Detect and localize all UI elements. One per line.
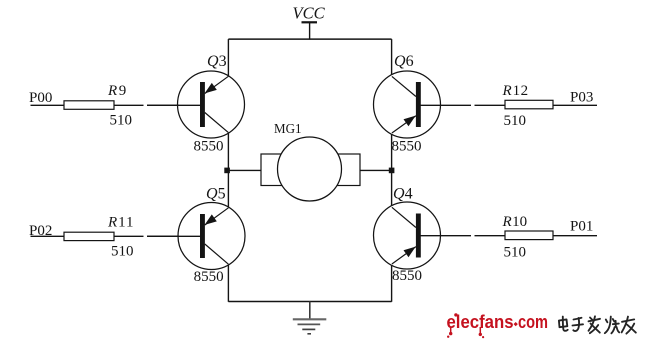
wire P00 to R9 [31, 104, 65, 106]
svg-text:P00: P00 [29, 90, 52, 106]
wire R10 to P01 [553, 235, 597, 237]
svg-text:510: 510 [504, 244, 527, 260]
wire left rail to motor [228, 169, 261, 171]
svg-text:VCC: VCC [293, 3, 326, 22]
watermark hanzi fa [589, 316, 601, 333]
power VCC symbol [293, 3, 326, 39]
resistor R10 [502, 214, 554, 260]
svg-text:Q5: Q5 [206, 186, 226, 203]
wire left rail middle [227, 132, 229, 208]
wire bottom rail [228, 301, 391, 303]
node junction left [224, 168, 230, 174]
transistor Q4 [374, 186, 472, 285]
resistor R11 [64, 215, 135, 260]
wire P02 to R11 [31, 235, 65, 237]
svg-text:Q6: Q6 [394, 53, 414, 70]
watermark hanzi dian [559, 317, 568, 331]
svg-text:P03: P03 [570, 90, 593, 106]
svg-text:8550: 8550 [194, 269, 224, 285]
svg-text:R12: R12 [502, 83, 529, 99]
node junction right [389, 168, 395, 174]
wire top rail [228, 38, 391, 40]
ground [293, 302, 327, 334]
svg-text:R9: R9 [107, 83, 126, 99]
svg-text:R11: R11 [107, 215, 135, 231]
transistor Q3 [147, 53, 245, 154]
watermark hanzi zi [573, 318, 584, 331]
wire left rail upper [227, 39, 229, 76]
svg-text:P02: P02 [29, 223, 52, 239]
wire R11 to Q5 base [114, 235, 179, 237]
svg-text:8550: 8550 [392, 138, 422, 154]
wire right rail upper [391, 39, 393, 76]
svg-text:510: 510 [111, 244, 134, 260]
transistor Q6 [374, 53, 472, 154]
svg-text:P01: P01 [570, 219, 593, 235]
watermark hanzi you [622, 317, 636, 334]
svg-text:510: 510 [504, 113, 527, 129]
svg-text:MG1: MG1 [274, 122, 302, 137]
svg-text:com: com [518, 312, 548, 332]
transistor Q5 [147, 186, 245, 286]
wire R9 to Q3 base [114, 104, 179, 106]
wire left rail lower [227, 263, 229, 302]
resistor R12 [502, 83, 554, 129]
wire right rail middle [391, 133, 393, 207]
svg-text:510: 510 [110, 112, 133, 128]
wire right rail lower [391, 264, 393, 302]
svg-text:Q4: Q4 [393, 186, 413, 203]
svg-text:R10: R10 [502, 214, 528, 230]
wire motor to right rail [360, 169, 392, 171]
wire Q6 base to R12 [475, 104, 506, 106]
wire R12 to P03 [553, 104, 597, 106]
motor MG1 [261, 122, 360, 201]
svg-text:8550: 8550 [194, 138, 224, 154]
svg-text:Q3: Q3 [207, 53, 227, 70]
svg-text:8550: 8550 [392, 268, 422, 284]
wire Q4 base to R10 [475, 235, 506, 237]
watermark hanzi shao [605, 317, 619, 334]
resistor R9 [64, 83, 132, 128]
watermark logo elecfans.com [447, 312, 549, 338]
